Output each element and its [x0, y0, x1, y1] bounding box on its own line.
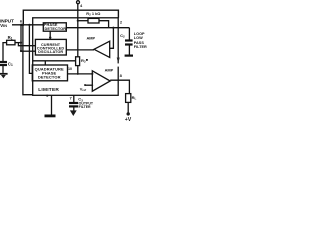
- svg-text:DETECTOR: DETECTOR: [38, 74, 61, 79]
- wire QPD to AMP2: [68, 73, 93, 75]
- svg-text:LIMITER: LIMITER: [38, 87, 59, 93]
- junction dot input a: [20, 24, 23, 27]
- ground pin 9: [45, 115, 56, 118]
- terminal 4 circle: [77, 1, 80, 4]
- resistor R2 wire: [78, 20, 88, 22]
- junction dot R2: [77, 20, 79, 22]
- junction dot node pin2: [112, 27, 114, 29]
- junction dot CCO in: [20, 50, 22, 52]
- junction dot Vref amp: [91, 84, 93, 86]
- op-amp AMP2: [92, 71, 110, 91]
- wire node drop to AMP1: [110, 28, 114, 49]
- wire bias row: [33, 60, 76, 62]
- wire Vref stub: [85, 84, 92, 86]
- phase detector box U1a: [43, 23, 66, 31]
- wire terminal 4 drop: [77, 4, 79, 57]
- wire R1 left to C1: [3, 43, 7, 61]
- ground C2 arrow shadow on box edge: [117, 58, 120, 64]
- label loop low pass filter: [134, 32, 147, 49]
- svg-text:AMP: AMP: [87, 35, 96, 40]
- wire R1 to node column: [15, 42, 21, 44]
- wire stub to QPD top: [44, 61, 46, 65]
- svg-text:RL: RL: [132, 95, 137, 101]
- junction dot R3 QPD wire: [77, 73, 79, 75]
- svg-text:C2: C2: [120, 33, 125, 39]
- ground C2: [125, 54, 133, 56]
- svg-text:10: 10: [68, 67, 72, 71]
- current controlled oscillator box U1b: [35, 39, 66, 55]
- capacitor C3: [69, 103, 78, 106]
- svg-text:R2 1 kΩ: R2 1 kΩ: [86, 11, 100, 17]
- wire AMP2 output pin 8: [110, 80, 129, 93]
- wire mesh column a: [20, 25, 22, 51]
- wire link R1 down: [18, 43, 35, 46]
- wire input: [12, 24, 43, 26]
- ground C1 triangle: [1, 75, 6, 78]
- svg-text:AMP: AMP: [105, 67, 114, 72]
- junction dot input b: [22, 24, 25, 27]
- terminal +V dot: [127, 112, 130, 115]
- wire top bus: [23, 10, 118, 25]
- junction dot QPD AMP2: [91, 73, 93, 75]
- ground C1: [0, 73, 8, 75]
- wire PD to CCO stub: [49, 31, 51, 39]
- label output filter: [79, 102, 94, 109]
- wire pin 7 / C3 stub: [73, 95, 75, 102]
- svg-text:FILTER: FILTER: [79, 105, 91, 109]
- svg-text:R3: R3: [81, 58, 86, 64]
- tick Vref end: [84, 84, 86, 86]
- wire R2 to node: [99, 21, 109, 28]
- junction dot R1: [20, 42, 22, 44]
- wire mesh column b: [23, 25, 33, 95]
- svg-text:VIN: VIN: [0, 23, 7, 28]
- junction dot bias row: [86, 59, 88, 61]
- IC outer box: [33, 18, 119, 96]
- ground C3 arrow: [70, 110, 77, 116]
- resistor R2: [88, 18, 99, 23]
- svg-text:LOW: LOW: [134, 36, 143, 40]
- svg-text:FILTER: FILTER: [134, 45, 147, 49]
- junction dot CCO stub: [49, 36, 51, 38]
- resistor R3: [76, 57, 80, 66]
- svg-text:OSCILLATOR: OSCILLATOR: [38, 50, 63, 54]
- wire PD output / pin 2: [66, 27, 129, 29]
- wire R3 to QPD output: [77, 66, 79, 74]
- wire RL to +V: [127, 102, 129, 112]
- junction dot input c: [28, 24, 30, 26]
- box edge gap: [117, 63, 119, 66]
- quadrature phase detector box U1c: [32, 65, 67, 81]
- svg-text:+V: +V: [125, 117, 132, 122]
- wire CCO to AMP1: [66, 49, 94, 51]
- resistor R1: [7, 40, 15, 45]
- capacitor C2 branch: [128, 28, 130, 40]
- capacitor C2: [125, 41, 133, 45]
- wire mesh column c: [29, 25, 32, 74]
- capacitor C1: [0, 62, 7, 65]
- svg-text:C1: C1: [8, 61, 13, 67]
- wire pin 9 ground stub: [51, 95, 53, 114]
- resistor RL: [126, 94, 131, 103]
- svg-text:Vref: Vref: [80, 86, 86, 92]
- wire into CCO lower: [21, 50, 35, 52]
- svg-text:DETECTOR: DETECTOR: [44, 27, 66, 31]
- label INPUT VIN: [0, 19, 14, 28]
- label current controlled oscillator: [37, 43, 65, 54]
- label phase detector: [44, 23, 66, 31]
- op-amp AMP1: [94, 41, 110, 57]
- label quadrature phase detector: [35, 67, 64, 80]
- svg-text:R1: R1: [8, 35, 13, 41]
